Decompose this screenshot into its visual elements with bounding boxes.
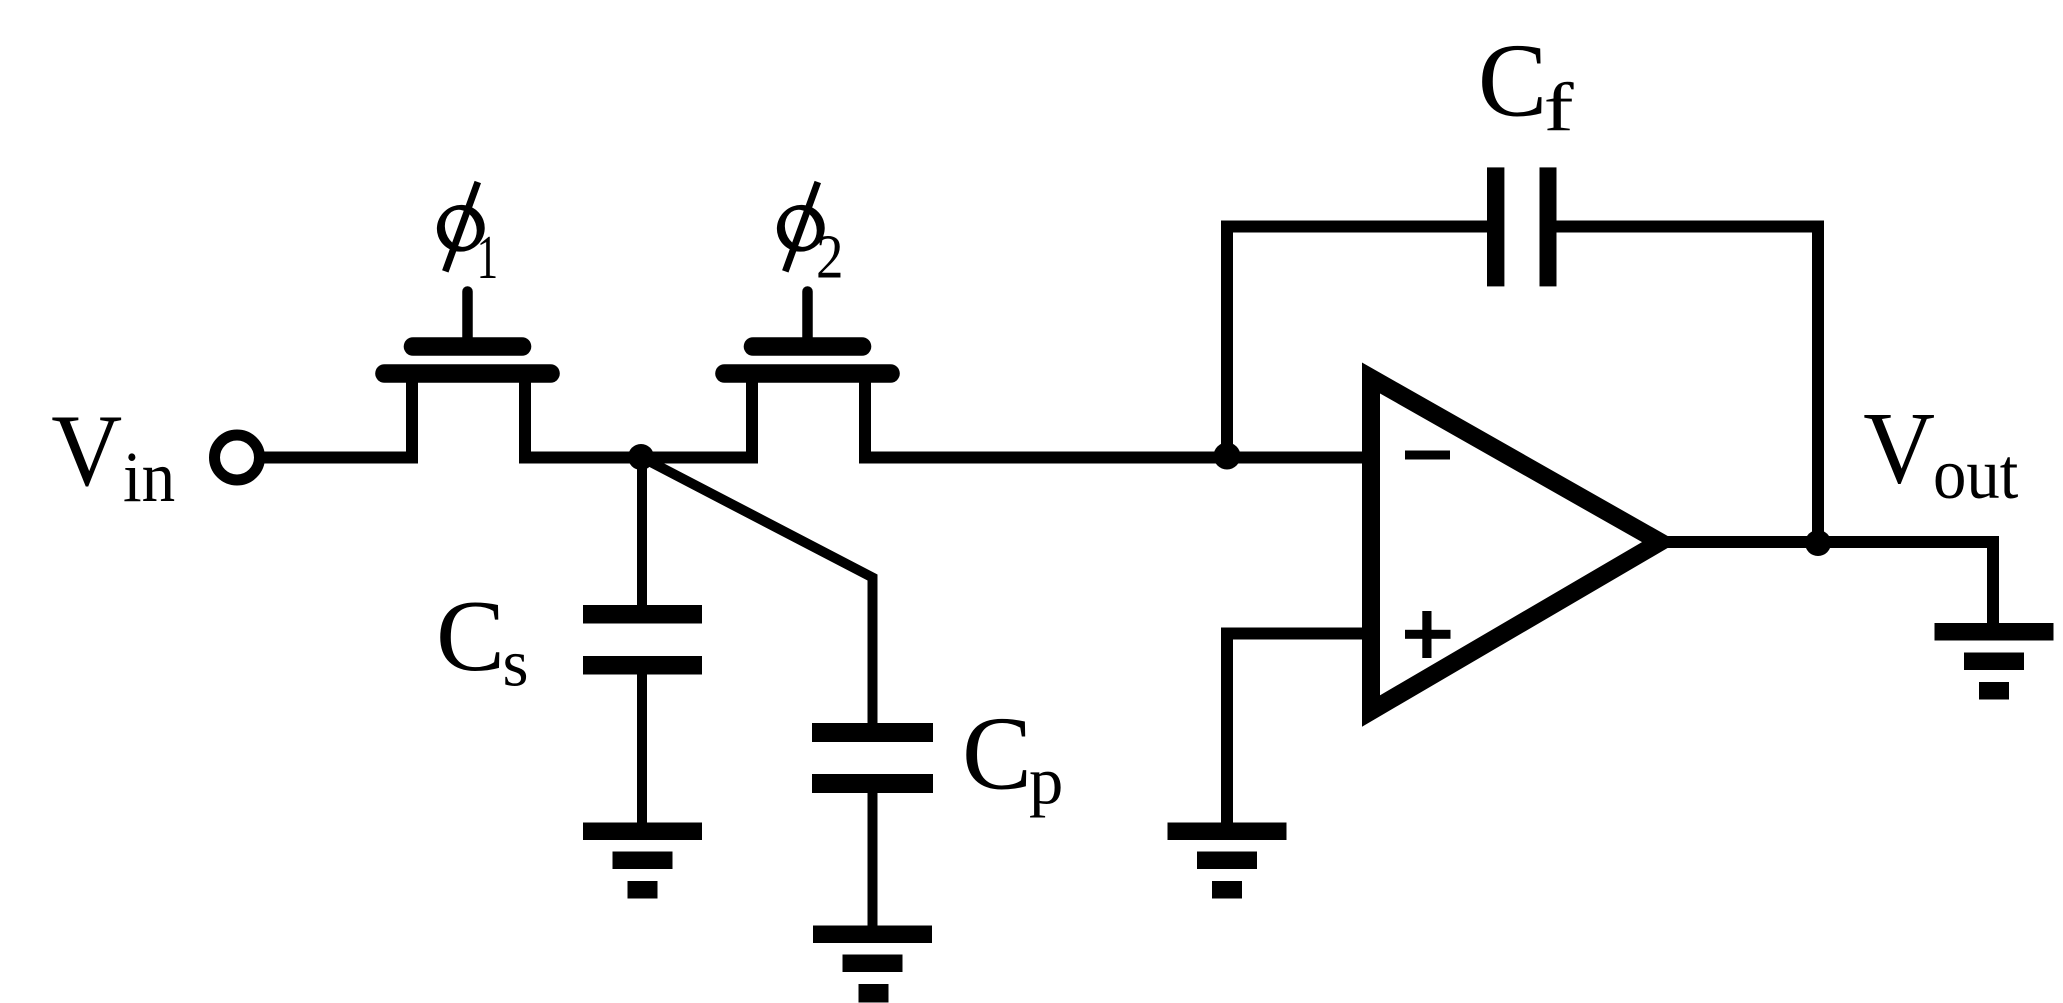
wire op-amp output to Vout and ground drop bbox=[1660, 542, 1993, 623]
wire Vin terminal to M1 source bbox=[264, 452, 418, 464]
ground (Cp) bbox=[813, 926, 932, 1003]
ground (Cs) bbox=[583, 823, 702, 899]
svg-text:2: 2 bbox=[816, 223, 844, 292]
wire feedback left riser bbox=[1227, 227, 1488, 458]
node A junction dot bbox=[628, 444, 654, 470]
op-amp U1 bbox=[1371, 378, 1660, 711]
svg-text:V: V bbox=[1863, 392, 1935, 506]
op-amp plus sign bbox=[1405, 611, 1451, 658]
wire node A diagonal to Cp bbox=[641, 457, 873, 724]
wire op-amp non-inverting input to ground bbox=[1227, 634, 1371, 823]
wire Cp to ground bbox=[868, 793, 878, 927]
svg-text:1: 1 bbox=[477, 224, 499, 292]
capacitor Cp bbox=[812, 723, 933, 742]
svg-text:C: C bbox=[962, 696, 1032, 812]
node B junction dot at inverting input bbox=[1214, 443, 1241, 470]
svg-text:s: s bbox=[503, 627, 529, 701]
wire Cs to ground bbox=[637, 674, 647, 823]
wire M2 drain to op-amp inverting input bbox=[859, 452, 1371, 464]
node Vin input terminal bbox=[215, 435, 260, 480]
transistor M1 (phi1 switch) bbox=[385, 292, 551, 464]
wire Cf to output node bbox=[1556, 227, 1818, 544]
svg-text:f: f bbox=[1544, 70, 1574, 146]
wire node A down to Cs bbox=[637, 457, 647, 606]
node Vout junction dot bbox=[1805, 530, 1831, 556]
transistor M2 (phi2 switch) bbox=[725, 292, 891, 464]
ground (op-amp + input) bbox=[1168, 823, 1287, 899]
phi1 label bbox=[430, 182, 491, 271]
svg-text:C: C bbox=[436, 580, 505, 693]
svg-text:V: V bbox=[51, 395, 122, 508]
capacitor Cs bbox=[583, 605, 702, 624]
svg-text:in: in bbox=[123, 437, 175, 517]
svg-text:p: p bbox=[1029, 744, 1063, 818]
op-amp minus sign bbox=[1405, 451, 1450, 460]
svg-text:C: C bbox=[1478, 23, 1547, 139]
ground (Vout) bbox=[1935, 623, 2054, 700]
phi2 label bbox=[770, 182, 831, 271]
wire M1 drain to node A bbox=[519, 452, 758, 464]
svg-text:out: out bbox=[1933, 434, 2018, 514]
capacitor Cf bbox=[1487, 167, 1504, 286]
